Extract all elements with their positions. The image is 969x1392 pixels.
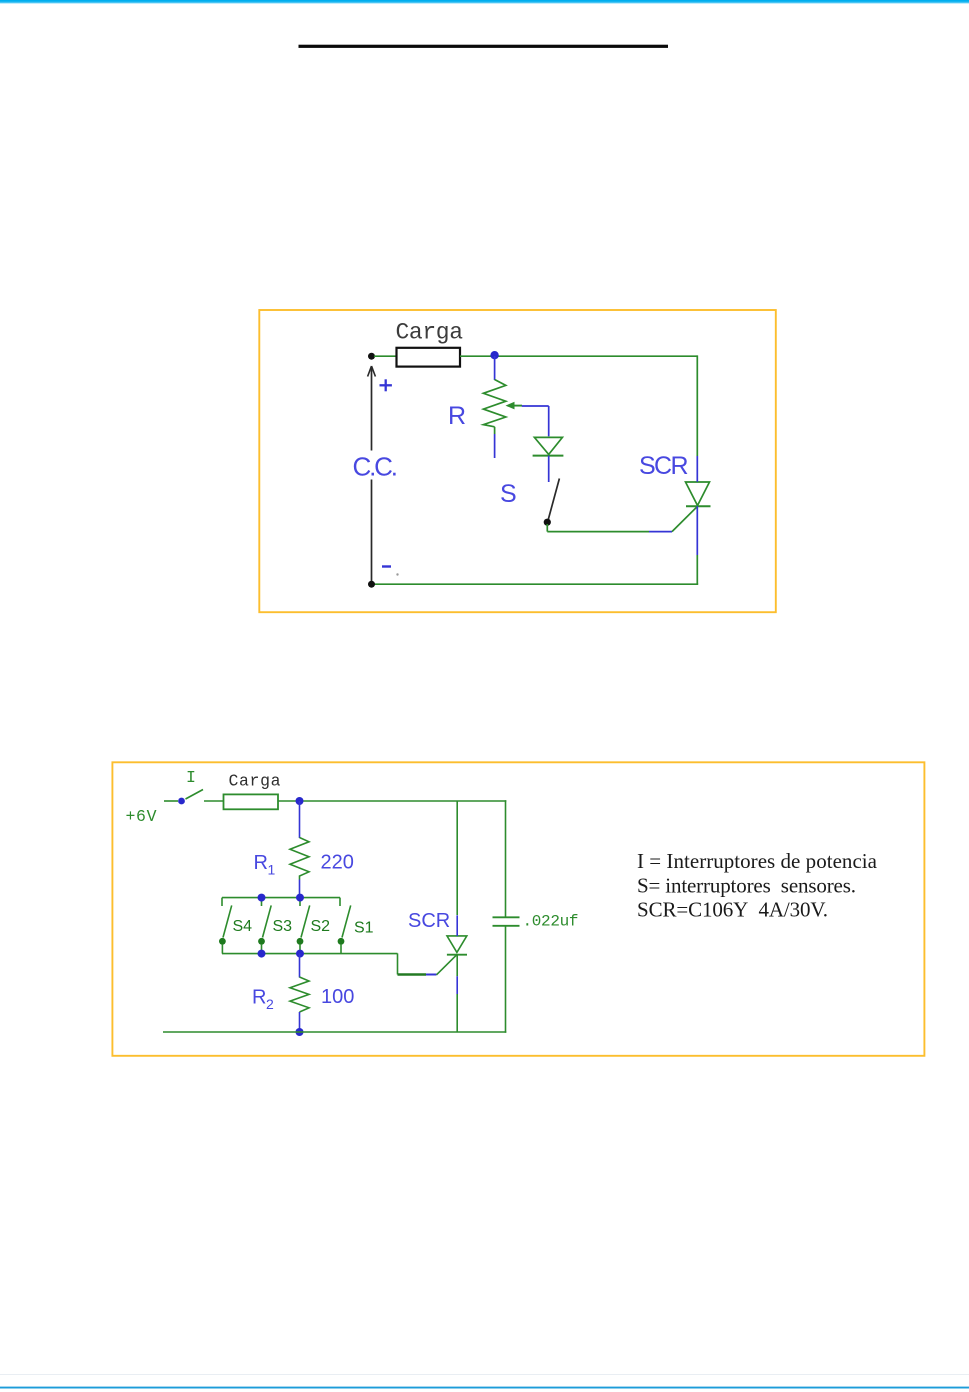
wiper arrow of R [506,402,523,410]
svg-text:1: 1 [268,862,276,878]
wire (right side top) [696,355,698,456]
svg-text:C.C.: C.C. [353,452,399,482]
svg-text:R: R [252,987,266,1009]
wire (SCR anode column) [456,801,458,915]
wire (cathode blue) [456,976,458,994]
wire [164,800,178,802]
node F (blue dot) [296,894,304,902]
resistor R2 zigzag [290,977,309,1012]
label - (minus) [382,565,391,567]
wire (gate step down) [397,953,399,974]
label + [380,379,392,391]
wire [494,427,496,434]
svg-text:S3: S3 [273,918,293,935]
svg-text:Carga: Carga [396,320,464,346]
footer cyan rule [0,1387,969,1389]
wire (cathode green) [456,994,458,1032]
label R2 [252,987,274,1013]
svg-text:S4: S4 [233,918,253,935]
wire (gate horizontal) [398,973,427,975]
wire [547,531,649,533]
wire [204,800,224,802]
header bar [0,0,969,4]
potentiometer R (zigzag) [483,380,505,427]
svg-text:+6V: +6V [126,807,157,826]
node A (top-left junction dot) [368,353,375,360]
title underline [299,45,669,48]
svg-text:I: I [186,768,196,787]
frame box 1 [259,310,776,612]
wire (anode blue) [456,915,458,936]
footer faint rule [0,1374,969,1375]
wire (bottom return) [372,583,699,585]
battery arrow (C.C. source) [368,366,376,582]
svg-text:220: 220 [321,852,354,874]
bus top rail of switch bank [222,898,340,906]
svg-text:2: 2 [266,996,274,1012]
wire (cathode green upper) [456,955,458,977]
wire [522,405,549,407]
wire [460,355,697,357]
svg-text:SCR: SCR [408,910,450,932]
svg-text:.022uf: .022uf [523,913,579,931]
wire (cap column bottom) [505,926,507,1033]
wire (bottom return 2) [163,1031,506,1033]
wire [548,406,550,436]
svg-text:Carga: Carga [229,772,281,791]
wire [649,531,672,533]
svg-text:S2: S2 [311,918,331,935]
wire [546,524,548,532]
resistor Carga (load box) [397,348,461,367]
svg-text:SCR: SCR [639,452,689,480]
svg-text:S= interruptores sensores.: S= interruptores sensores. [637,874,856,898]
wire (top rail) [278,800,506,802]
node G (blue dot) [258,950,266,958]
wire [494,434,496,458]
speck [396,573,398,575]
node I (blue dot bottom) [296,1028,304,1036]
wire (gate blue) [426,974,437,976]
wire [299,953,301,977]
svg-text:S: S [500,480,517,508]
wire [299,801,301,838]
switch I pivot dot [178,798,185,805]
wire (cathode lead blue) [696,506,698,555]
switch S3 [258,905,292,944]
svg-text:R: R [448,402,466,430]
wire [299,1012,301,1032]
wire (right side bottom) [696,555,698,584]
switch S contact dot [544,519,551,526]
label R1 [254,852,276,878]
wire [299,880,301,898]
switch S1 [338,905,374,944]
wire (gate lead) [672,506,698,531]
wire (anode lead blue) [696,456,698,482]
switch S4 [219,905,252,944]
node C (bottom-left junction dot) [368,581,375,588]
svg-text:100: 100 [321,986,354,1008]
legend text [637,849,878,922]
thyristor SCR 2 [447,936,467,955]
svg-text:R: R [254,852,268,874]
switch S blade [548,479,559,521]
switch I blade [186,790,204,800]
resistor Carga (load box 2) [224,794,279,809]
bus bottom rail of switch bank [222,944,398,954]
diode D1 [533,437,564,455]
switch S2 [297,905,331,944]
frame box 2 [112,762,924,1056]
node B (blue junction dot) [490,351,498,359]
wire (cap column top) [505,800,507,917]
capacitor C1 [493,917,520,926]
resistor R1 zigzag [290,838,309,880]
node H (blue dot) [296,950,304,958]
node E (blue dot) [258,894,266,902]
wire (gate diagonal) [437,954,458,975]
wire [494,356,496,380]
svg-text:S1: S1 [354,920,374,937]
thyristor SCR [686,482,711,506]
svg-text:I = Interruptores de potencia: I = Interruptores de potencia [637,849,878,873]
svg-text:SCR=C106Y 4A/30V.: SCR=C106Y 4A/30V. [637,898,828,922]
wire [548,456,550,482]
node D (blue dot) [296,797,304,805]
wire [374,355,397,357]
